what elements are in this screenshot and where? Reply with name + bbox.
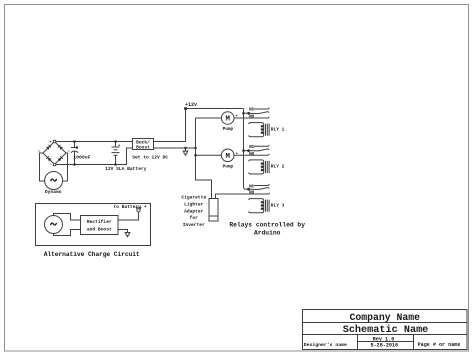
svg-text:Set to 12V DC: Set to 12V DC bbox=[132, 155, 168, 161]
svg-text:RLY 1: RLY 1 bbox=[271, 126, 285, 132]
svg-text:12V SLA Battery: 12V SLA Battery bbox=[105, 166, 147, 172]
svg-text:Company Name: Company Name bbox=[350, 312, 421, 323]
svg-text:Pump: Pump bbox=[223, 164, 234, 169]
svg-text:NO: NO bbox=[249, 191, 255, 196]
svg-text:1000uF: 1000uF bbox=[73, 154, 90, 160]
svg-text:Boost: Boost bbox=[136, 145, 150, 151]
svg-text:NO: NO bbox=[249, 152, 255, 157]
svg-text:Page # or name: Page # or name bbox=[418, 342, 461, 348]
svg-text:RLY 2: RLY 2 bbox=[271, 164, 285, 170]
svg-text:RLY 3: RLY 3 bbox=[271, 202, 285, 208]
svg-text:+12v: +12v bbox=[185, 102, 197, 108]
svg-text:Pump: Pump bbox=[223, 127, 234, 132]
svg-text:M: M bbox=[225, 153, 230, 161]
svg-text:Relays controlled by: Relays controlled by bbox=[229, 222, 305, 229]
svg-text:and Boost: and Boost bbox=[87, 226, 112, 232]
svg-text:M: M bbox=[225, 116, 230, 124]
svg-text:+: + bbox=[118, 144, 121, 148]
svg-text:Designer's name: Designer's name bbox=[304, 342, 347, 348]
svg-text:C: C bbox=[76, 146, 79, 151]
svg-text:for: for bbox=[190, 215, 199, 221]
svg-text:Adapter: Adapter bbox=[184, 208, 204, 214]
svg-text:Schematic Name: Schematic Name bbox=[343, 324, 429, 336]
svg-text:NC: NC bbox=[249, 108, 255, 113]
svg-text:Alternative Charge Circuit: Alternative Charge Circuit bbox=[44, 251, 140, 258]
svg-text:Lighter: Lighter bbox=[184, 201, 204, 207]
svg-text:-: - bbox=[50, 164, 52, 168]
svg-text:Cigarette: Cigarette bbox=[181, 195, 206, 201]
svg-text:Dynamo: Dynamo bbox=[45, 189, 62, 195]
svg-text:to Battery +: to Battery + bbox=[114, 204, 147, 210]
svg-text:NO: NO bbox=[249, 115, 255, 120]
svg-text:5-28-2016: 5-28-2016 bbox=[371, 343, 399, 349]
svg-text:Rectifier: Rectifier bbox=[87, 219, 112, 225]
svg-text:NC: NC bbox=[249, 145, 255, 150]
svg-text:Arduino: Arduino bbox=[254, 229, 281, 236]
svg-text:Rev 1.0: Rev 1.0 bbox=[373, 336, 395, 342]
svg-text:Inverter: Inverter bbox=[183, 222, 205, 228]
